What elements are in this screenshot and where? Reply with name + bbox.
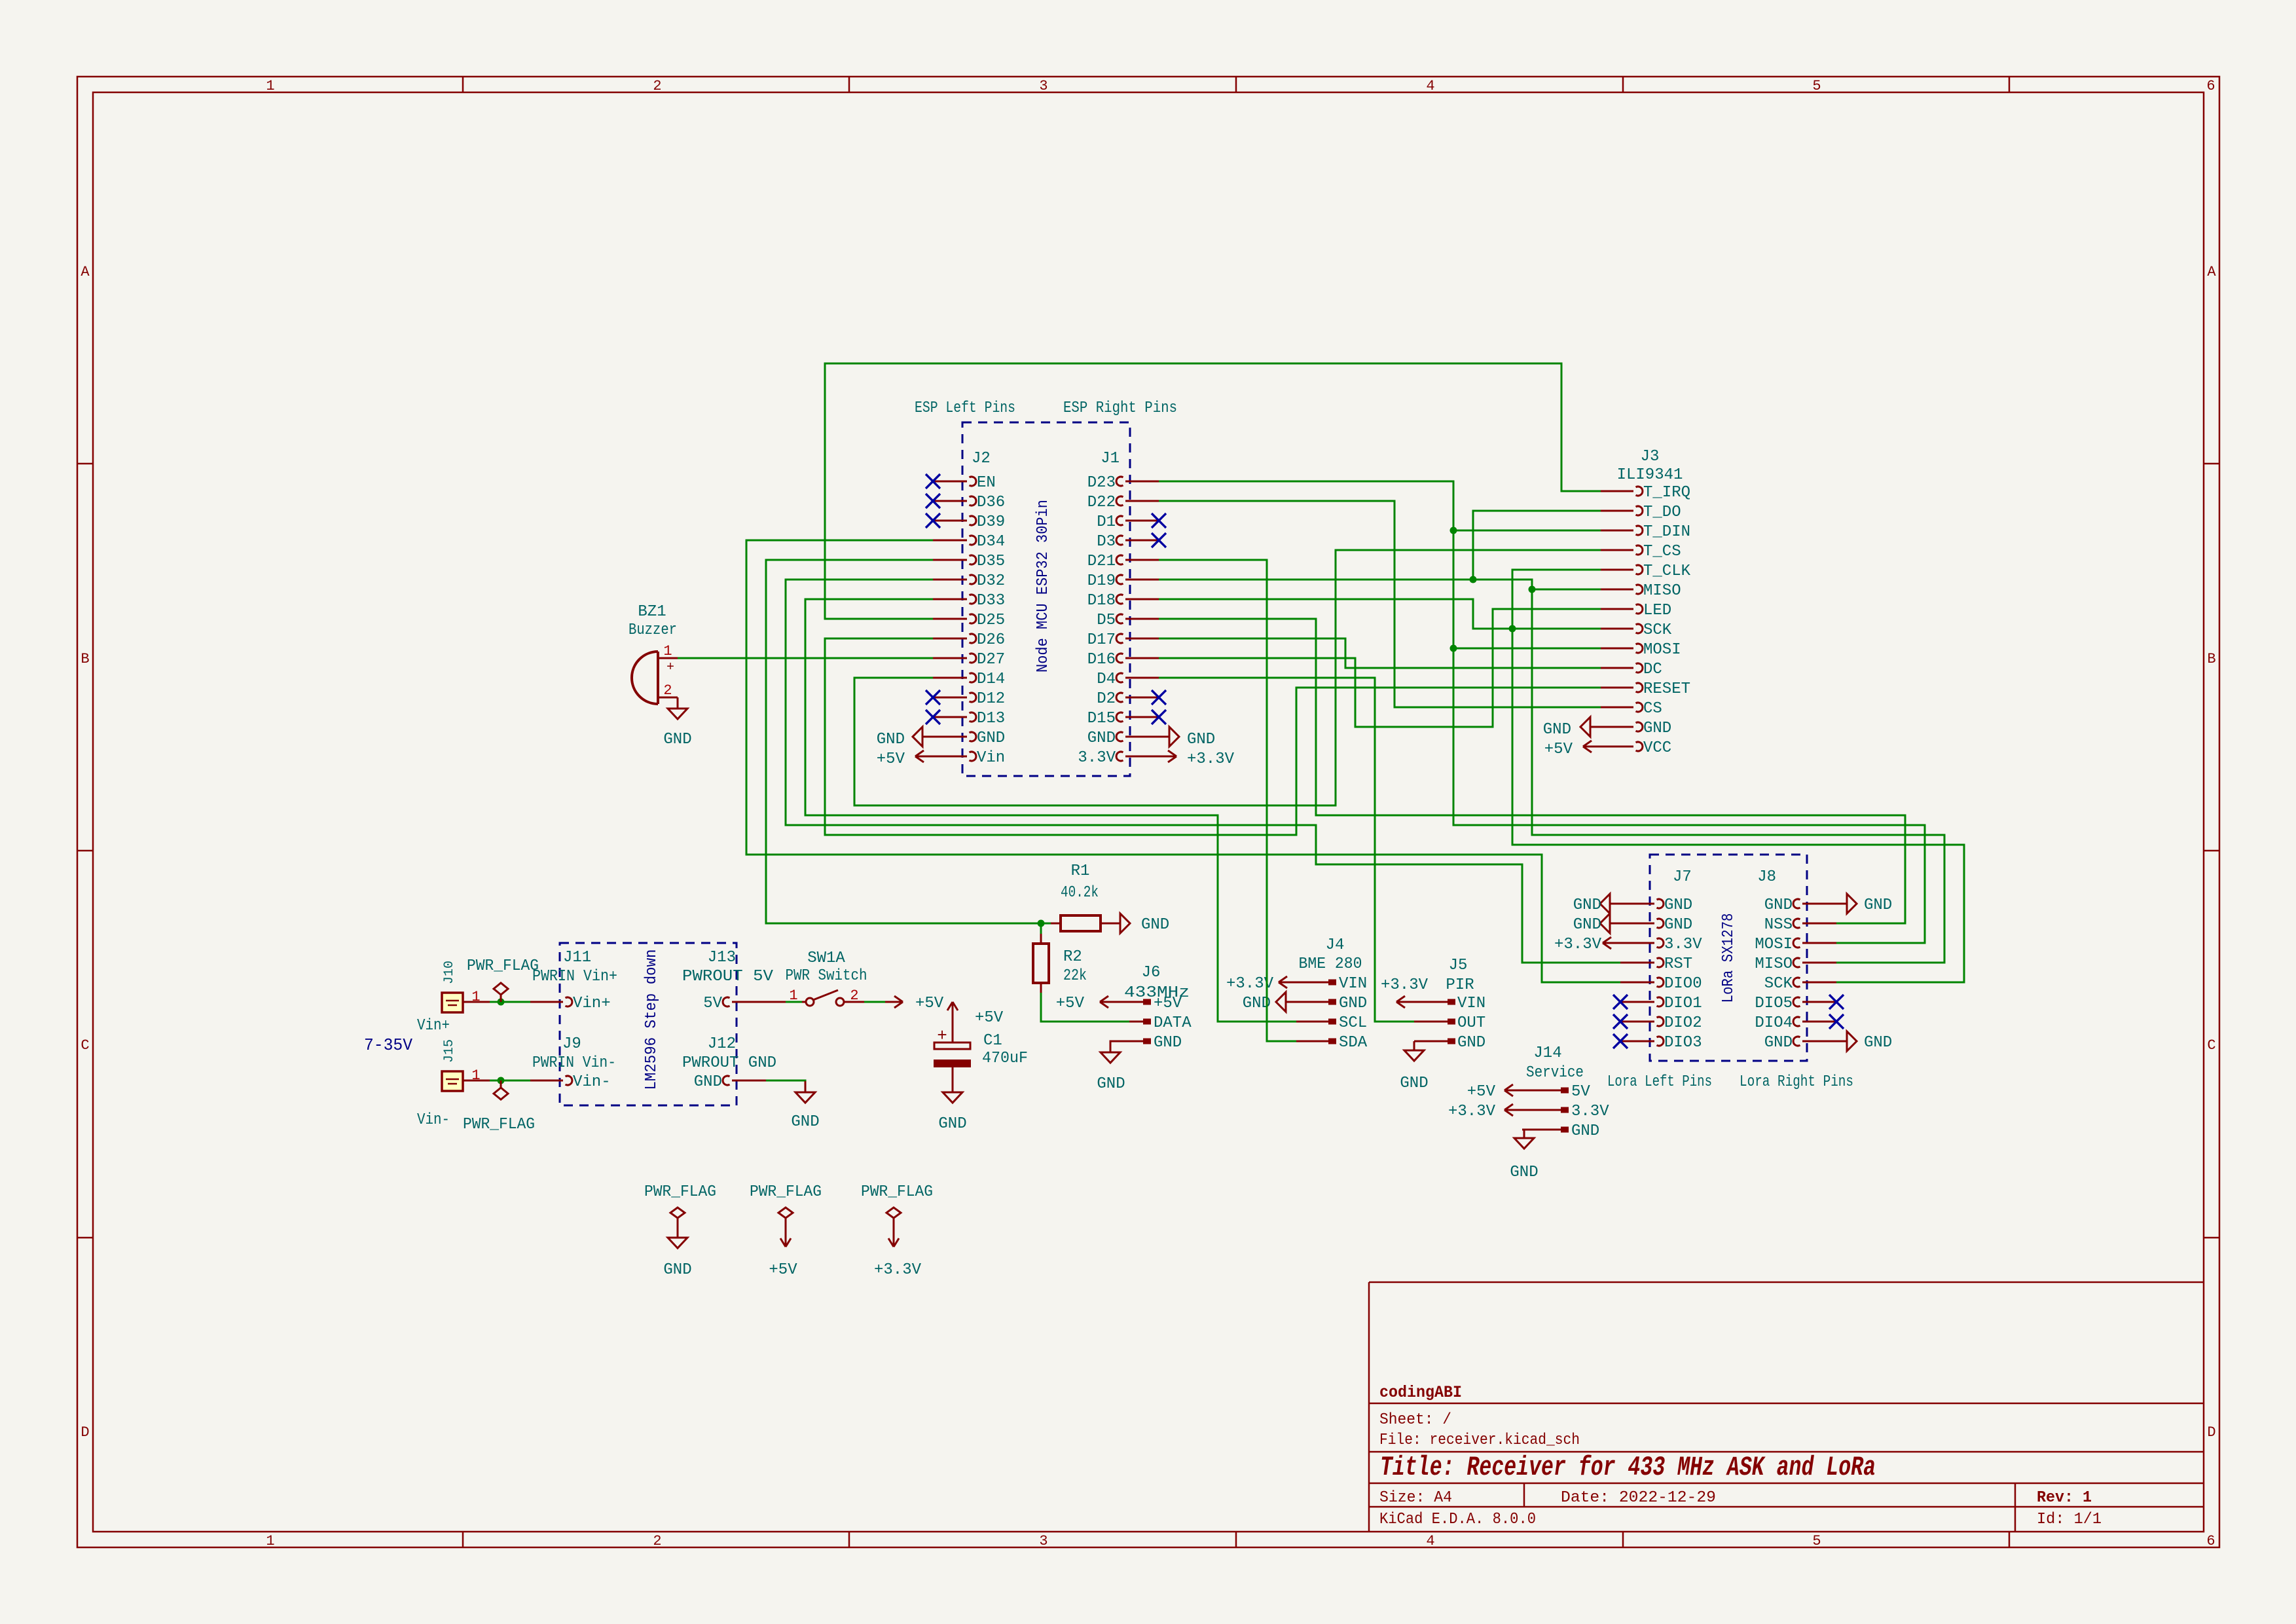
connector J2 pin D26 [933, 638, 967, 640]
wire ESP D21 to J4 SDA [1159, 560, 1296, 1041]
svg-text:DIO3: DIO3 [1664, 1034, 1702, 1052]
ground at buzzer pin 2 [677, 697, 679, 709]
resistor R2 body [1033, 944, 1049, 983]
svg-text:J4: J4 [1326, 936, 1345, 954]
connector J7 pin DIO2 [1620, 1021, 1654, 1023]
svg-text:A: A [81, 264, 90, 280]
connector J1 pin D15 [1125, 716, 1159, 718]
connector J1 pin D22 [1125, 500, 1159, 502]
svg-text:GND: GND [1571, 1122, 1599, 1140]
svg-text:T_CLK: T_CLK [1643, 563, 1691, 580]
connector J4 pin GND [1296, 1001, 1328, 1003]
wire ESP D32 to LoRa RST [786, 580, 1620, 963]
connector J8 pin SCK [1802, 982, 1836, 984]
no-connect X J1 D15 [1152, 710, 1166, 724]
svg-text:+5V: +5V [877, 750, 905, 768]
svg-text:GND: GND [1764, 896, 1793, 914]
connector J2 pin Vin [933, 756, 967, 758]
no-connect X J2 EN [926, 474, 940, 489]
svg-text:+5V: +5V [1544, 741, 1573, 758]
svg-text:D16: D16 [1087, 651, 1116, 669]
connector J3 pin CS [1601, 707, 1633, 709]
svg-text:D26: D26 [977, 631, 1005, 649]
svg-text:3.3V: 3.3V [1664, 936, 1702, 953]
svg-text:3: 3 [1039, 1533, 1048, 1549]
svg-text:D22: D22 [1087, 494, 1116, 511]
svg-text:J10: J10 [442, 961, 457, 984]
svg-text:J7: J7 [1673, 868, 1692, 886]
connector J2 pin EN [933, 481, 967, 483]
power GND at J2 GND pin [922, 736, 933, 738]
svg-text:GND: GND [1664, 916, 1692, 934]
svg-text:D25: D25 [977, 612, 1005, 629]
connector J4 pin SDA [1296, 1041, 1328, 1043]
svg-text:4: 4 [1426, 78, 1434, 94]
wire branch T_DO [1473, 511, 1601, 580]
svg-text:GND: GND [1573, 896, 1601, 914]
connector J2 pin D33 [933, 599, 967, 600]
svg-text:+3.3V: +3.3V [1187, 750, 1235, 768]
connector J1 pin 3.3V [1125, 756, 1159, 758]
svg-text:D: D [81, 1424, 89, 1441]
svg-text:D1: D1 [1097, 513, 1116, 531]
resistor R1 left stem [1051, 923, 1061, 925]
svg-text:D13: D13 [977, 710, 1005, 728]
svg-text:Id: 1/1: Id: 1/1 [2037, 1511, 2102, 1528]
wire J15 to J9 Vin- [490, 1080, 530, 1082]
svg-text:+5V: +5V [1056, 995, 1085, 1012]
svg-text:C: C [81, 1037, 89, 1054]
svg-text:D33: D33 [977, 592, 1005, 610]
junction at T_DIN branch [1450, 527, 1457, 534]
power +5V at J14 5V [1504, 1090, 1522, 1092]
screw terminal J15 [442, 1071, 463, 1091]
svg-text:+5V: +5V [915, 995, 944, 1012]
svg-text:SCK: SCK [1643, 621, 1672, 639]
connector J2 pin D12 [933, 697, 967, 699]
connector J2 pin D32 [933, 579, 967, 581]
svg-text:7-35V: 7-35V [364, 1035, 412, 1055]
junction at SCK branch [1509, 625, 1516, 633]
connector J3 pin SCK [1601, 628, 1633, 630]
svg-text:SDA: SDA [1339, 1034, 1368, 1052]
power GND at J8 GND pin 8 [1836, 1041, 1847, 1043]
svg-text:GND: GND [1764, 1034, 1793, 1052]
connector J2 pin D14 [933, 677, 967, 679]
resistor R2 top stem [1040, 934, 1042, 944]
no-connect X J2 D13 [926, 710, 940, 724]
svg-text:PWR_FLAG: PWR_FLAG [467, 957, 539, 975]
svg-text:GND: GND [1339, 995, 1367, 1012]
svg-text:D36: D36 [977, 494, 1005, 511]
svg-text:PWR_FLAG: PWR_FLAG [463, 1116, 535, 1134]
svg-text:+3.3V: +3.3V [1381, 976, 1429, 994]
svg-text:Title: Receiver for 433 MHz AS: Title: Receiver for 433 MHz ASK and LoRa [1380, 1452, 1876, 1483]
svg-text:MOSI: MOSI [1643, 641, 1681, 659]
wire branch T_DIN [1453, 530, 1601, 532]
svg-text:GND: GND [1154, 1034, 1182, 1052]
connector J8 pin GND [1802, 1041, 1836, 1043]
power +5V right of switch [885, 1001, 903, 1003]
svg-text:SCL: SCL [1339, 1014, 1367, 1032]
svg-text:D: D [2207, 1424, 2215, 1441]
dashed box Node MCU ESP32 [962, 422, 1130, 776]
wire ESP D35 to R1 R2 divider [766, 560, 1041, 923]
connector J7 pin DIO0 [1620, 982, 1654, 984]
connector J7 pin 3.3V [1620, 942, 1654, 944]
power +5V at J2 Vin pin [915, 756, 933, 758]
svg-text:BME 280: BME 280 [1299, 955, 1362, 973]
svg-text:GND: GND [1864, 896, 1892, 914]
wire R2 to J6 DATA [1041, 993, 1129, 1022]
svg-text:LED: LED [1643, 602, 1671, 619]
no-connect X J8 DIO5 [1829, 995, 1844, 1009]
screw terminal J10 [442, 993, 463, 1012]
svg-text:DIO2: DIO2 [1664, 1014, 1702, 1032]
svg-text:LoRa SX1278: LoRa SX1278 [1720, 913, 1738, 1003]
svg-text:MISO: MISO [1643, 582, 1681, 600]
svg-text:J11: J11 [563, 949, 591, 967]
connector J5 pin OUT [1414, 1021, 1448, 1023]
svg-text:File: receiver.kicad_sch: File: receiver.kicad_sch [1379, 1431, 1580, 1449]
svg-text:D2: D2 [1097, 690, 1116, 708]
svg-text:D32: D32 [977, 572, 1005, 590]
wire SCK bus T_CLK to LoRa SCK [1512, 570, 1964, 982]
svg-text:J2: J2 [972, 450, 991, 468]
connector J1 pin D16 [1125, 657, 1159, 659]
connector J1 pin D3 [1125, 540, 1159, 542]
svg-text:DIO0: DIO0 [1664, 975, 1702, 993]
no-connect X J2 D36 [926, 494, 940, 508]
svg-text:T_IRQ: T_IRQ [1643, 484, 1690, 502]
svg-text:D15: D15 [1087, 710, 1116, 728]
svg-text:PWR_FLAG: PWR_FLAG [861, 1183, 933, 1201]
buzzer BZ1 pin 1 [658, 657, 678, 659]
svg-text:D18: D18 [1087, 592, 1116, 610]
svg-text:PWRIN Vin+: PWRIN Vin+ [532, 968, 617, 986]
svg-text:B: B [81, 651, 89, 667]
connector J2 pin D36 [933, 500, 967, 502]
svg-text:2: 2 [663, 682, 672, 699]
buzzer BZ1 pin 2 [658, 697, 678, 699]
wire ESP D19 to MISO bus [1159, 580, 1944, 963]
wire junction to R1 [1041, 923, 1051, 925]
svg-text:PWR Switch: PWR Switch [786, 967, 867, 985]
svg-text:DIO1: DIO1 [1664, 995, 1702, 1012]
connector J2 pin D13 [933, 716, 967, 718]
svg-text:D23: D23 [1087, 474, 1116, 492]
svg-text:SW1A: SW1A [807, 950, 845, 967]
svg-text:Service: Service [1526, 1064, 1584, 1082]
connector J2 pin GND [933, 736, 967, 738]
ground right of R1 [1120, 913, 1130, 933]
connector J3 pin T_IRQ [1601, 490, 1633, 492]
svg-text:470uF: 470uF [982, 1050, 1028, 1067]
svg-text:D21: D21 [1087, 553, 1116, 570]
connector J8 pin DIO5 [1802, 1001, 1836, 1003]
wire ESP D25 to ILI9341 T_IRQ [825, 363, 1601, 619]
connector J7 pin DIO3 [1620, 1041, 1654, 1043]
connector J3 pin GND [1601, 726, 1633, 728]
svg-text:6: 6 [2206, 1533, 2215, 1549]
connector J4 pin SCL [1296, 1021, 1328, 1023]
connector J8 pin MISO [1802, 962, 1836, 964]
no-connect X J1 D3 [1152, 533, 1166, 547]
svg-text:C: C [2207, 1037, 2215, 1054]
svg-text:6: 6 [2206, 78, 2215, 94]
power flag PWR_FLAG at Vin- [500, 1080, 502, 1088]
svg-text:GND: GND [1864, 1034, 1892, 1052]
switch SW1A pin 1 [802, 1001, 805, 1003]
svg-text:J6: J6 [1142, 964, 1161, 982]
svg-text:MISO: MISO [1755, 955, 1793, 973]
svg-text:GND: GND [1543, 721, 1571, 739]
svg-text:R1: R1 [1071, 862, 1090, 880]
svg-text:T_DIN: T_DIN [1643, 523, 1690, 541]
power GND at J4 GND [1286, 1001, 1296, 1003]
wire ESP D17 to ILI9341 DC [1159, 638, 1601, 668]
junction at R1 R2 divider [1038, 920, 1045, 927]
power GND at J3 GND pin [1590, 726, 1601, 728]
svg-text:GND: GND [977, 729, 1005, 747]
svg-text:4: 4 [1426, 1533, 1434, 1549]
svg-text:5: 5 [1812, 78, 1821, 94]
connector J11 pin Vin+ [530, 1001, 563, 1003]
resistor R2 bottom stem [1040, 983, 1042, 993]
svg-text:1: 1 [663, 643, 672, 659]
svg-text:PIR: PIR [1446, 976, 1474, 994]
svg-text:3.3V: 3.3V [1571, 1103, 1609, 1120]
svg-text:GND: GND [1643, 720, 1671, 737]
connector J1 pin D21 [1125, 559, 1159, 561]
svg-text:Node MCU ESP32 30Pin: Node MCU ESP32 30Pin [1034, 500, 1052, 673]
svg-text:D5: D5 [1097, 612, 1116, 629]
connector J1 pin D5 [1125, 618, 1159, 620]
connector J6 pin GND [1129, 1041, 1143, 1043]
svg-text:PWRIN Vin-: PWRIN Vin- [532, 1054, 616, 1072]
switch SW1A pin 2 [845, 1001, 864, 1003]
no-connect X J2 D39 [926, 513, 940, 528]
wire ESP D16 to ILI9341 LED [1159, 609, 1601, 727]
connector J2 pin D39 [933, 520, 967, 522]
connector J5 pin VIN [1414, 1001, 1448, 1003]
power +5V at J3 VCC pin [1583, 746, 1601, 748]
connector J1 pin D2 [1125, 697, 1159, 699]
svg-text:Lora Left Pins: Lora Left Pins [1607, 1073, 1712, 1091]
svg-text:VIN: VIN [1339, 975, 1367, 993]
svg-text:J13: J13 [708, 949, 736, 967]
connector J14 pin GND [1522, 1129, 1561, 1131]
wire J13 5V to switch [786, 1001, 802, 1003]
svg-text:J1: J1 [1101, 450, 1120, 468]
ground at J12 GND [805, 1081, 807, 1092]
svg-text:D4: D4 [1097, 671, 1116, 688]
svg-text:Buzzer: Buzzer [629, 621, 677, 639]
svg-text:BZ1: BZ1 [638, 603, 666, 621]
svg-text:B: B [2207, 651, 2215, 667]
svg-text:ILI9341: ILI9341 [1617, 466, 1683, 484]
ground at J6 GND [1110, 1041, 1129, 1052]
power +3.3V at J14 3.3V [1504, 1109, 1522, 1111]
connector J1 pin D19 [1125, 579, 1159, 581]
power +3.3V at J7 3.3V [1603, 942, 1620, 944]
dashed box LoRa SX1278 [1650, 855, 1807, 1061]
connector J7 pin GND [1620, 923, 1654, 925]
connector J3 pin T_DIN [1601, 530, 1633, 532]
svg-text:DIO5: DIO5 [1755, 995, 1793, 1012]
svg-text:codingABI: codingABI [1379, 1383, 1462, 1402]
no-connect X J1 D1 [1152, 513, 1166, 528]
svg-text:LM2596 Step down: LM2596 Step down [643, 950, 661, 1090]
svg-text:2: 2 [653, 78, 661, 94]
svg-text:GND: GND [1573, 916, 1601, 934]
connector J1 pin GND [1125, 736, 1159, 738]
svg-text:40.2k: 40.2k [1061, 884, 1099, 902]
power +3.3V at J4 VIN [1279, 982, 1296, 984]
wire ESP D34 to LoRa DIO0 [746, 540, 1620, 982]
wire ESP D18 to SCK [1159, 599, 1601, 629]
svg-text:GND: GND [1457, 1034, 1485, 1052]
no-connect X J8 DIO4 [1829, 1014, 1844, 1029]
svg-text:EN: EN [977, 474, 996, 492]
svg-text:PWR_FLAG: PWR_FLAG [750, 1183, 822, 1201]
wire buzzer pin1 to ESP D27 [678, 657, 933, 659]
connector J1 pin D17 [1125, 638, 1159, 640]
connector J1 pin D1 [1125, 520, 1159, 522]
connector J7 pin GND [1620, 903, 1654, 905]
svg-text:D19: D19 [1087, 572, 1116, 590]
svg-text:NSS: NSS [1764, 916, 1793, 934]
svg-text:GND: GND [694, 1073, 722, 1091]
svg-text:D14: D14 [977, 671, 1005, 688]
svg-text:1: 1 [266, 78, 274, 94]
svg-text:3: 3 [1039, 78, 1048, 94]
connector J6 pin DATA [1129, 1021, 1143, 1023]
svg-text:+3.3V: +3.3V [1554, 936, 1602, 953]
svg-text:VIN: VIN [1457, 995, 1485, 1012]
power +3.3V at J5 VIN [1396, 1001, 1414, 1003]
connector J6 pin +5V [1129, 1001, 1143, 1003]
screw terminal J15 pin 1 [463, 1080, 490, 1082]
svg-text:T_DO: T_DO [1643, 504, 1681, 521]
svg-text:+: + [666, 660, 674, 675]
connector J3 pin DC [1601, 667, 1633, 669]
svg-text:D39: D39 [977, 513, 1005, 531]
no-connect X J7 DIO2 [1613, 1014, 1628, 1029]
svg-text:D34: D34 [977, 533, 1005, 551]
svg-text:DATA: DATA [1154, 1014, 1192, 1032]
power +3.3V at J1 3.3V pin [1159, 756, 1176, 758]
connector J8 pin GND [1802, 903, 1836, 905]
svg-text:3.3V: 3.3V [1078, 749, 1116, 767]
svg-text:GND: GND [663, 1261, 691, 1279]
wire branch MOSI [1453, 648, 1601, 650]
no-connect X J2 D12 [926, 690, 940, 705]
connector J3 pin MOSI [1601, 648, 1633, 650]
svg-text:ESP Right Pins: ESP Right Pins [1063, 399, 1177, 417]
svg-text:J9: J9 [562, 1035, 581, 1053]
wire branch MISO [1532, 589, 1601, 591]
svg-text:GND: GND [1400, 1075, 1428, 1092]
svg-text:GND: GND [663, 731, 691, 748]
connector J2 pin D35 [933, 559, 967, 561]
svg-text:D17: D17 [1087, 631, 1116, 649]
svg-text:DIO4: DIO4 [1755, 1014, 1793, 1032]
svg-text:Rev: 1: Rev: 1 [2037, 1489, 2092, 1507]
svg-text:GND: GND [1087, 729, 1116, 747]
wire switch to +5V [864, 1001, 885, 1003]
svg-text:5V: 5V [1571, 1083, 1590, 1101]
svg-text:T_CS: T_CS [1643, 543, 1681, 561]
power GND at J1 GND pin [1159, 736, 1169, 738]
junction at T_DO branch [1470, 576, 1477, 583]
svg-text:Vin+: Vin+ [417, 1017, 450, 1035]
connector J3 pin RESET [1601, 687, 1633, 689]
connector J7 pin DIO1 [1620, 1001, 1654, 1003]
svg-text:DC: DC [1643, 661, 1662, 678]
svg-text:GND: GND [1664, 896, 1692, 914]
capacitor C1 bottom plate [934, 1060, 971, 1067]
power GND at J7 GND pin 2 [1610, 923, 1620, 925]
connector J4 pin VIN [1296, 982, 1328, 984]
svg-text:Vin-: Vin- [417, 1111, 450, 1129]
connector J3 pin MISO [1601, 589, 1633, 591]
connector J2 pin D27 [933, 657, 967, 659]
wire J10 to J11 Vin+ [490, 1001, 530, 1003]
screw terminal J10 pin 1 [463, 1001, 490, 1003]
svg-text:C1: C1 [983, 1032, 1002, 1050]
capacitor C1 top plate [934, 1043, 970, 1049]
connector J8 pin DIO4 [1802, 1021, 1836, 1023]
svg-text:A: A [2207, 264, 2216, 280]
svg-text:D3: D3 [1097, 533, 1116, 551]
svg-text:Vin+: Vin+ [573, 995, 611, 1012]
svg-text:Vin: Vin [977, 749, 1005, 767]
connector J8 pin NSS [1802, 923, 1836, 925]
no-connect X J7 DIO3 [1613, 1034, 1628, 1048]
svg-text:VCC: VCC [1643, 739, 1671, 757]
svg-text:GND: GND [1510, 1164, 1538, 1181]
connector J1 pin D23 [1125, 481, 1159, 483]
capacitor C1 bottom stem [952, 1067, 954, 1092]
dashed box LM2596 Step down [560, 943, 737, 1105]
svg-text:Date: 2022-12-29: Date: 2022-12-29 [1561, 1489, 1716, 1507]
svg-text:CS: CS [1643, 700, 1662, 718]
svg-text:J14: J14 [1533, 1044, 1561, 1062]
svg-text:+3.3V: +3.3V [1448, 1103, 1496, 1120]
svg-text:Sheet: /: Sheet: / [1379, 1411, 1451, 1429]
wire ESP D5 to LoRa NSS [1159, 619, 1905, 923]
svg-text:GND: GND [1187, 731, 1215, 748]
switch SW1A pole [806, 998, 814, 1006]
wire ESP D33 to J4 SCL [805, 599, 1296, 1022]
connector J7 pin RST [1620, 962, 1654, 964]
svg-text:GND: GND [1141, 916, 1169, 934]
svg-text:J12: J12 [708, 1035, 736, 1053]
connector J1 pin D18 [1125, 599, 1159, 600]
svg-text:5V: 5V [703, 995, 722, 1012]
connector J5 pin GND [1414, 1041, 1448, 1043]
svg-text:RST: RST [1664, 955, 1692, 973]
connector J12 pin GND [732, 1080, 766, 1082]
connector J3 pin T_CS [1601, 549, 1633, 551]
connector J14 pin 5V [1522, 1090, 1561, 1092]
junction at Vin- wire [498, 1077, 505, 1084]
wire ESP D4 to J5 PIR OUT [1159, 678, 1414, 1022]
svg-text:MOSI: MOSI [1755, 936, 1793, 953]
svg-text:GND: GND [877, 731, 905, 748]
connector J8 pin MOSI [1802, 942, 1836, 944]
